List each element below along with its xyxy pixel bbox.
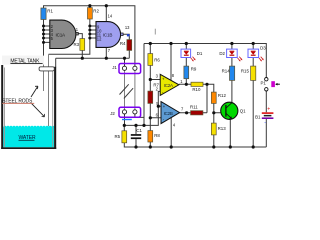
svg-text:R1: R1: [47, 9, 53, 14]
svg-text:R10: R10: [192, 87, 201, 92]
svg-text:R3: R3: [74, 42, 80, 47]
svg-text:IC2B: IC2B: [164, 111, 173, 116]
svg-text:R15: R15: [241, 69, 250, 74]
svg-text:14: 14: [108, 14, 113, 19]
svg-text:12: 12: [97, 37, 102, 42]
svg-text:R6: R6: [154, 57, 160, 62]
svg-text:+: +: [267, 107, 270, 113]
svg-text:R13: R13: [218, 126, 227, 131]
svg-text:J1: J1: [112, 65, 117, 70]
svg-text:IC1A: IC1A: [56, 32, 67, 37]
svg-text:D3: D3: [260, 45, 266, 50]
svg-text:IC1B: IC1B: [103, 33, 113, 38]
svg-text:R7: R7: [153, 82, 159, 87]
svg-text:P1: P1: [261, 80, 267, 85]
svg-text:R9: R9: [191, 67, 197, 72]
svg-text:D2: D2: [219, 51, 225, 56]
svg-text:R14: R14: [222, 69, 231, 74]
svg-text:R8: R8: [154, 133, 160, 138]
svg-text:R4: R4: [120, 41, 126, 46]
svg-text:R12: R12: [218, 93, 227, 98]
svg-text:B1: B1: [255, 115, 261, 120]
svg-text:13: 13: [125, 25, 130, 30]
svg-text:C1: C1: [136, 128, 142, 133]
svg-text:R11: R11: [190, 105, 198, 110]
svg-text:J2: J2: [110, 111, 115, 116]
svg-text:R2: R2: [93, 9, 99, 14]
svg-text:-: -: [264, 120, 266, 126]
svg-text:R5: R5: [115, 134, 121, 139]
svg-text:Q1: Q1: [240, 109, 246, 114]
svg-text:IC2A: IC2A: [164, 83, 173, 88]
svg-text:D1: D1: [197, 51, 203, 56]
